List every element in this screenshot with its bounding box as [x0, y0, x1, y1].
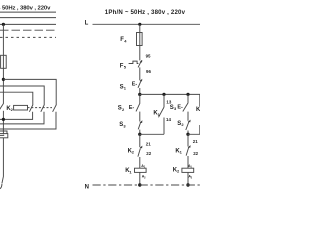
- contactor K2 pole 2: [29, 105, 33, 112]
- fuse F4: [137, 33, 143, 46]
- stop button S1 (NC): [138, 79, 142, 95]
- svg-text:4: 4: [124, 38, 127, 43]
- wire: pole4 bottom to outer loop bottom: [0, 112, 56, 129]
- bus line N (dashed): [0, 29, 56, 31]
- node B': [186, 133, 189, 136]
- wire: to node B': [187, 131, 189, 135]
- svg-text:95: 95: [146, 54, 151, 59]
- holding contact K1 13/14 (NO): [163, 94, 165, 107]
- wire: pole2 bottom to inner loop bottom: [0, 112, 33, 120]
- svg-text:N: N: [85, 184, 89, 190]
- L terminal label: [85, 21, 89, 27]
- coil K2: [182, 168, 194, 172]
- wire: outer loop top: [3, 79, 56, 104]
- wire: node B' to edge branch: [188, 125, 200, 134]
- node B: [138, 133, 141, 136]
- wire: inner loop top: [0, 92, 33, 104]
- wire: S3 to S2 NC: [187, 112, 189, 121]
- button interlock contact S3 (NC): [140, 120, 143, 123]
- svg-text:3: 3: [123, 123, 126, 128]
- start button S3 (NO, right column): [187, 94, 189, 102]
- start button S2 (NO): [139, 94, 141, 103]
- wire: node A rail to edge branch: [140, 94, 200, 106]
- bus line PE (dash-dot): [0, 36, 56, 38]
- wire: coil K1 to N: [139, 172, 141, 185]
- bus line L1: [0, 11, 56, 13]
- svg-text:96: 96: [146, 69, 151, 74]
- svg-text:2: 2: [177, 169, 180, 174]
- button interlock contact S2 (NC): [188, 120, 191, 123]
- svg-text:14: 14: [166, 117, 171, 122]
- fuse (power): [1, 55, 7, 68]
- wire: pole1 lower lead: [2, 111, 4, 135]
- wire: S3 to node B: [139, 130, 141, 135]
- svg-text:2: 2: [181, 122, 184, 127]
- pin 96: [146, 69, 151, 74]
- svg-text:1: 1: [180, 150, 183, 155]
- svg-text:E-: E-: [129, 105, 135, 111]
- wire: second motor feeder into overload: [0, 131, 7, 134]
- wire: to K1 coil: [139, 157, 141, 168]
- interlock contact K1 21/22 (NC): [187, 134, 189, 146]
- wire: N line (dashed): [93, 184, 201, 186]
- svg-text:2: 2: [191, 176, 193, 179]
- svg-text:21: 21: [193, 139, 198, 144]
- contactor K2 label: [6, 106, 13, 112]
- contactor K2 pole 1 (at cropped edge): [0, 103, 4, 111]
- wire: drop from L3 to fuse: [2, 24, 4, 55]
- svg-text:1: 1: [124, 86, 127, 91]
- svg-text:1Ph/N ~ 50Hz , 380v , 220v: 1Ph/N ~ 50Hz , 380v , 220v: [105, 9, 186, 16]
- wire: F5 to S1: [139, 67, 141, 80]
- node: tap on L3: [2, 23, 5, 26]
- node at crossover top: [2, 78, 5, 81]
- supply rating label: [105, 9, 186, 16]
- pin 95: [146, 54, 151, 59]
- overload relay block (cut off at left): [0, 134, 8, 138]
- bus line L3: [0, 23, 56, 25]
- wire: F4 to F5: [139, 46, 141, 61]
- wire inside overload: [0, 134, 4, 136]
- svg-text:1: 1: [129, 169, 132, 174]
- contactor K2 pole 4: [53, 105, 57, 112]
- contactor K2 coil block: [14, 105, 28, 110]
- wire: coil K2 to N: [187, 172, 189, 185]
- mechanical linkage (dashed): [28, 107, 53, 109]
- svg-text:2: 2: [144, 176, 146, 179]
- svg-text:E-: E-: [177, 104, 183, 110]
- svg-text:2: 2: [132, 150, 135, 155]
- wire: L to fuse F4: [139, 24, 141, 32]
- svg-text:2: 2: [122, 107, 125, 112]
- wire: to K2 coil: [187, 156, 189, 168]
- svg-text:22: 22: [146, 151, 151, 156]
- N terminal label: [85, 184, 89, 190]
- svg-text:E-: E-: [132, 81, 138, 87]
- motor (cut off at corner): [0, 184, 2, 189]
- wire: pole3 bottom to middle loop bottom: [0, 112, 44, 124]
- svg-text:22: 22: [193, 151, 198, 156]
- svg-text:13: 13: [166, 99, 171, 104]
- wire: L line: [93, 23, 201, 25]
- svg-text:L: L: [85, 21, 89, 27]
- node: tap for control: [138, 23, 141, 26]
- svg-text:5: 5: [124, 65, 127, 70]
- thermal overload contact F5: [129, 60, 143, 68]
- node A: [138, 93, 141, 96]
- svg-text:- 50Hz , 380v , 220v: - 50Hz , 380v , 220v: [0, 5, 51, 11]
- coil K1: [135, 168, 147, 172]
- contactor K2 pole 3: [41, 105, 45, 112]
- wire: middle loop top: [0, 86, 44, 105]
- bus line L2: [0, 17, 56, 19]
- supply rating label (left, cut off): [0, 5, 51, 11]
- wire: fuse to crossover node: [2, 68, 4, 103]
- svg-text:21: 21: [146, 142, 151, 147]
- node on inner loop bottom: [2, 118, 5, 121]
- wire: S2 to S3: [139, 112, 141, 122]
- interlock contact K2 21/22 (NC): [139, 134, 141, 147]
- wire: node B to K1 aux branch: [140, 133, 164, 135]
- wire: motor lead: [2, 138, 4, 184]
